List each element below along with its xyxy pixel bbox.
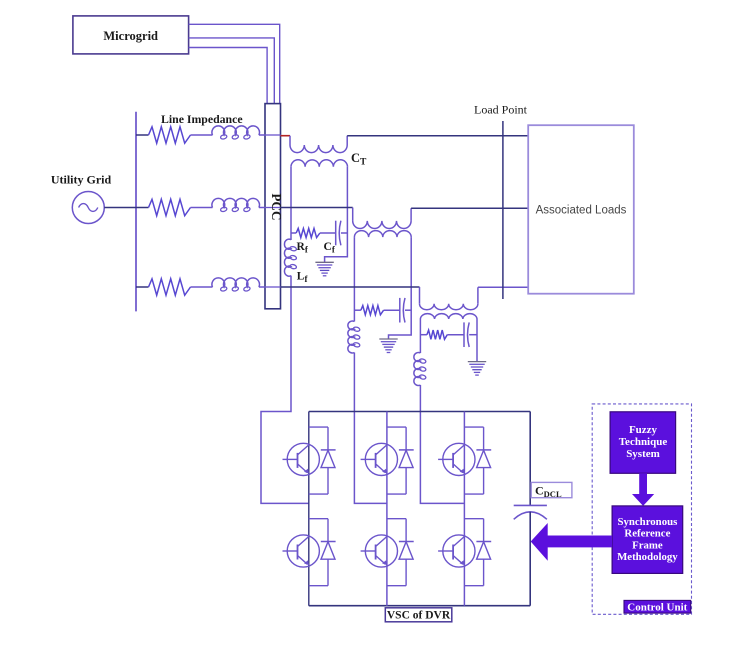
svg-text:Control Unit: Control Unit: [627, 602, 687, 614]
wire bus to R phase B: [136, 207, 149, 209]
wire: cell loop bottom bar S2: [464, 585, 483, 587]
node PCC bus bar: [265, 104, 281, 309]
wire transformer C to load: [478, 286, 528, 288]
wire transformer A to load: [347, 135, 528, 137]
wire: cell loop bottom bar S1: [309, 493, 328, 495]
svg-text:Methodology: Methodology: [617, 551, 678, 563]
node load point bus: [502, 121, 504, 299]
inductor Lf_B filter: [348, 321, 355, 353]
capacitor Cf_B filter: [399, 298, 401, 323]
wire A primary right leg: [325, 167, 348, 262]
resistor RlineB: line impedance: [149, 199, 191, 215]
wire C R-row stub: [420, 334, 427, 336]
capacitor Cf_A filter: [335, 221, 337, 246]
source G1: utility grid AC source: [72, 192, 104, 224]
wire R to L phase A: [191, 134, 213, 136]
diode DS3: anti-parallel diode: [405, 427, 407, 450]
wire: cell loop top bar S2: [464, 518, 483, 520]
svg-text:Associated Loads: Associated Loads: [536, 205, 627, 217]
wire: cell loop top bar S5: [464, 426, 483, 428]
svg-text:Reference: Reference: [624, 528, 670, 540]
wire B primary right leg: [389, 237, 412, 339]
wire VSC right DC link upper: [529, 412, 531, 506]
transformer T_C primary winding: [420, 314, 477, 319]
transistor QS1: IGBT/BJT: [287, 443, 319, 475]
wire transformer B to load: [411, 207, 528, 209]
svg-text:VSC of DVR: VSC of DVR: [387, 610, 451, 622]
svg-text:Rf: Rf: [297, 241, 309, 255]
capacitor C_DCL: [514, 504, 547, 506]
transistor QS5: IGBT/BJT: [443, 443, 475, 475]
transformer T_C secondary winding: [419, 287, 421, 304]
wire: cell loop bottom bar S5: [464, 493, 483, 495]
wire bus to R phase A: [136, 134, 149, 136]
inductor LlineC: line impedance: [212, 278, 260, 287]
diode DS5: anti-parallel diode: [483, 427, 485, 450]
box: Microgrid: [73, 16, 189, 54]
inductor Lf_C filter: [414, 353, 421, 386]
ground B filter: [379, 338, 397, 340]
wire L to PCC phase C: [259, 286, 266, 288]
wire C primary right leg: [476, 319, 478, 362]
wire phase B through PCC: [266, 207, 281, 209]
arrow SRF to VSC: [531, 523, 612, 561]
capacitor Cf_C filter: [463, 322, 465, 347]
resistor Rf_C filter: [427, 330, 447, 339]
wire VSC leg3: [463, 412, 465, 606]
wire C leg to VSC leg3 midpoint: [420, 385, 464, 503]
diode DS2: anti-parallel diode: [483, 519, 485, 542]
diode DS4: anti-parallel diode: [327, 519, 329, 542]
wire C primary left leg: [419, 319, 421, 353]
wire A leg to VSC leg1 midpoint: [261, 276, 309, 504]
wire PCC to transformer B: [281, 207, 353, 209]
svg-text:System: System: [626, 448, 660, 460]
resistor RlineC: line impedance: [149, 279, 191, 295]
box: C_DCL label: [531, 482, 572, 497]
resistor Rf_A filter: [296, 228, 320, 237]
wire Rf_A to Cf_A: [320, 232, 336, 234]
svg-text:CT: CT: [351, 151, 367, 168]
transformer T_B secondary winding: [352, 208, 354, 221]
wire PCC to transformer A (fault segment): [281, 135, 291, 137]
svg-text:Microgrid: Microgrid: [103, 29, 158, 43]
wire A primary left leg: [290, 167, 292, 240]
ground A filter: [315, 261, 333, 263]
wire R to L phase C: [191, 286, 213, 288]
svg-text:Synchronous: Synchronous: [617, 516, 677, 528]
inductor LlineA: line impedance: [212, 126, 260, 135]
wire B primary left leg: [353, 237, 355, 321]
transformer T_A primary winding: [291, 160, 347, 167]
svg-text:Technique: Technique: [619, 436, 668, 448]
transformer T_A secondary winding: [289, 136, 291, 145]
wire R to L phase B: [191, 207, 213, 209]
diode DS6: anti-parallel diode: [405, 519, 407, 542]
svg-text:Load Point: Load Point: [474, 103, 528, 117]
wire PCC to transformer C: [281, 286, 420, 288]
wire L to PCC phase A: [259, 134, 266, 136]
wire phase A through PCC: [266, 134, 281, 136]
wire Cf_A to right leg: [341, 232, 348, 234]
resistor RlineA: line impedance: [149, 127, 191, 143]
wire VSC leg1: [308, 412, 310, 606]
inductor Lf_A filter: [284, 239, 291, 276]
wire microgrid feeder 2: [189, 38, 275, 104]
wire: cell loop top bar S3: [387, 426, 406, 428]
inductor LlineB: line impedance: [212, 198, 260, 207]
wire Rf_C to Cf_C: [447, 334, 464, 336]
svg-text:Cf: Cf: [324, 241, 336, 255]
ground C filter: [468, 361, 486, 363]
wire: cell loop bottom bar S4: [309, 585, 328, 587]
box: Fuzzy Technique System: [610, 412, 676, 474]
wire VSC right DC link lower: [529, 512, 531, 606]
wire Rf_B to Cf_B: [384, 309, 400, 311]
resistor Rf_B filter: [361, 306, 384, 315]
wire microgrid feeder 3: [189, 48, 268, 104]
wire source to bus: [104, 207, 136, 209]
wire phase C through PCC: [266, 286, 281, 288]
wire Cf_C to right leg: [469, 334, 477, 336]
wire VSC DC+ bus: [309, 411, 530, 413]
wire VSC leg2: [386, 412, 388, 606]
transistor QS2: IGBT/BJT: [443, 535, 475, 567]
svg-text:Utility Grid: Utility Grid: [51, 173, 112, 187]
wire A R-row stub: [291, 232, 296, 234]
svg-text:Fuzzy: Fuzzy: [629, 424, 658, 436]
svg-text:Line Impedance: Line Impedance: [161, 112, 243, 126]
wire source bus vertical: [135, 112, 137, 312]
wire Cf_B to right leg: [405, 309, 411, 311]
wire bus to R phase C: [136, 286, 149, 288]
svg-text:Lf: Lf: [297, 271, 309, 285]
wire: cell loop bottom bar S3: [387, 493, 406, 495]
transformer T_B primary winding: [354, 231, 411, 238]
box: Associated Loads: [528, 125, 634, 294]
arrow fuzzy to SRF: [632, 473, 654, 506]
wire VSC DC- bus: [309, 605, 530, 607]
wire: cell loop top bar S1: [309, 426, 328, 428]
box: Control Unit label: [624, 600, 691, 613]
wire microgrid feeder 1: [189, 24, 280, 103]
box: VSC of DVR label: [385, 608, 452, 622]
wire: cell loop bottom bar S6: [387, 585, 406, 587]
transistor QS4: IGBT/BJT: [287, 535, 319, 567]
wire B leg to VSC leg2 midpoint: [354, 353, 387, 504]
wire B R-row stub: [354, 309, 361, 311]
transistor QS3: IGBT/BJT: [365, 443, 397, 475]
wire L to PCC phase B: [259, 207, 266, 209]
wire: cell loop top bar S4: [309, 518, 328, 520]
box: Synchronous Reference Frame Methodology: [612, 506, 683, 574]
svg-text:Frame: Frame: [632, 539, 663, 551]
wire: cell loop top bar S6: [387, 518, 406, 520]
box: Control Unit dashed frame: [592, 404, 691, 614]
diode DS1: anti-parallel diode: [327, 427, 329, 450]
transistor QS6: IGBT/BJT: [365, 535, 397, 567]
